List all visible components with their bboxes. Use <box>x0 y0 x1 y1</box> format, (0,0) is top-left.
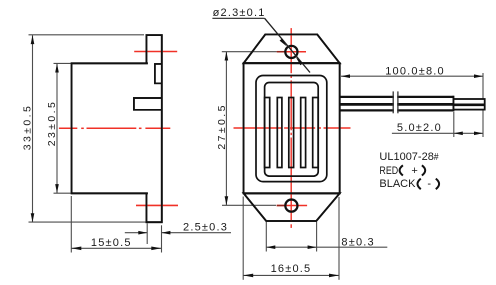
svg-text:UL1007-28: UL1007-28 <box>379 151 433 163</box>
svg-text:23±0.5: 23±0.5 <box>46 100 58 146</box>
svg-text:RED: RED <box>379 165 398 177</box>
svg-text:33±0.5: 33±0.5 <box>21 104 33 150</box>
svg-text:#: # <box>434 152 439 163</box>
svg-text:100.0±8.0: 100.0±8.0 <box>385 66 445 78</box>
svg-text:+: + <box>411 165 417 177</box>
svg-text:-: - <box>427 178 431 190</box>
svg-text:27±0.5: 27±0.5 <box>216 103 228 149</box>
svg-text:5.0±2.0: 5.0±2.0 <box>397 122 442 134</box>
svg-text:16±0.5: 16±0.5 <box>271 263 312 275</box>
svg-text:8±0.3: 8±0.3 <box>341 236 374 248</box>
svg-text:2.5±0.3: 2.5±0.3 <box>183 221 228 233</box>
svg-text:15±0.5: 15±0.5 <box>91 237 132 249</box>
svg-text:ø2.3±0.1: ø2.3±0.1 <box>213 7 266 19</box>
svg-text:BLACK: BLACK <box>379 178 416 190</box>
